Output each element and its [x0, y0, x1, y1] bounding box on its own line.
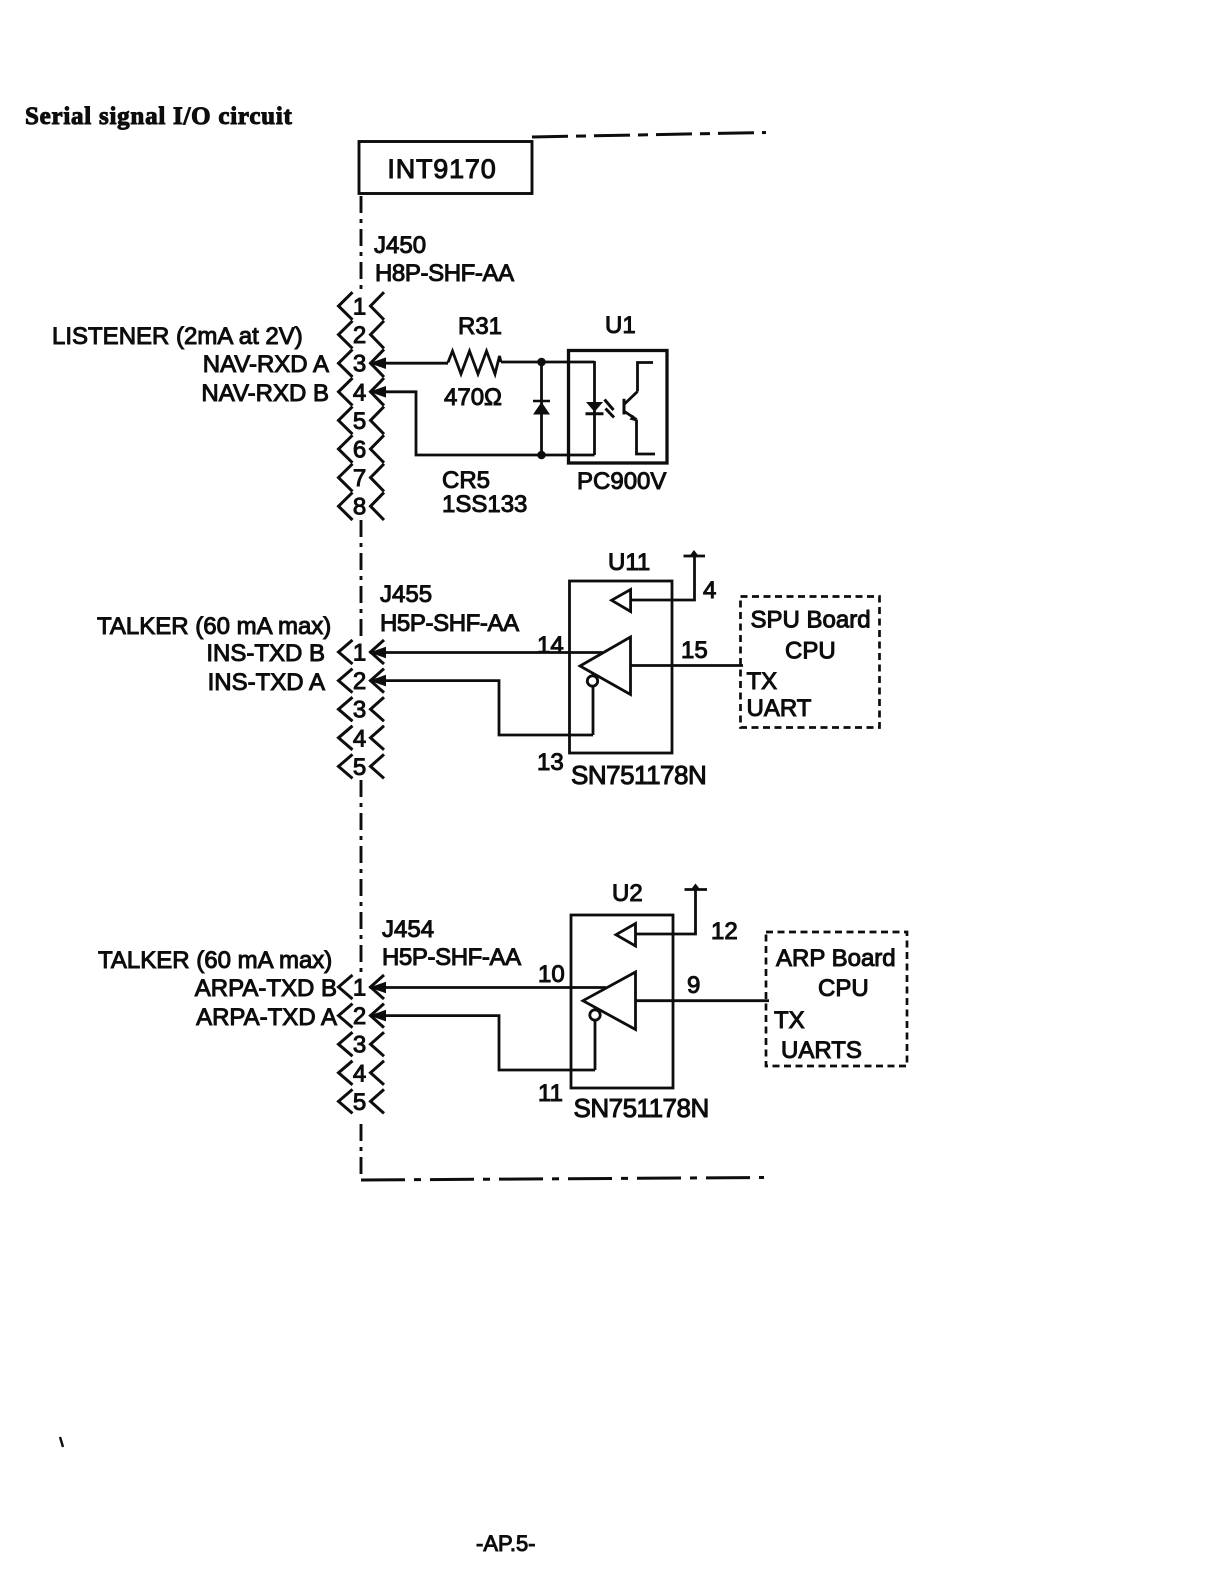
- J450 pin 3: [339, 349, 353, 377]
- svg-text:6: 6: [353, 437, 366, 464]
- J450 pin 2: [339, 321, 353, 349]
- svg-text:2: 2: [353, 1003, 366, 1030]
- power rail tick (U2): [690, 884, 700, 891]
- wire U2 input to ARP board: [636, 999, 770, 1002]
- wire J454 pin1 to U2 driver output: [370, 986, 607, 989]
- svg-text:TALKER (60 mA max): TALKER (60 mA max): [97, 613, 331, 640]
- svg-text:NAV-RXD A: NAV-RXD A: [203, 351, 329, 378]
- svg-text:3: 3: [353, 351, 366, 378]
- svg-text:CPU: CPU: [785, 638, 836, 665]
- arrow into pin 3: [370, 357, 387, 369]
- svg-text:TALKER (60 mA max): TALKER (60 mA max): [98, 947, 332, 974]
- arrow into J455 pin 2: [370, 675, 387, 687]
- svg-text:1: 1: [353, 975, 366, 1002]
- svg-text:5: 5: [353, 408, 366, 435]
- svg-text:U2: U2: [612, 880, 643, 907]
- svg-text:H5P-SHF-AA: H5P-SHF-AA: [380, 610, 519, 637]
- U2 driver triangle: [583, 972, 636, 1030]
- U11 bubble lead wire: [592, 686, 595, 735]
- svg-text:UART: UART: [747, 695, 812, 722]
- U11 enable wire to pin 4 power: [631, 556, 695, 600]
- SPU board dashed box: [741, 597, 880, 728]
- wire pin4 down and across to U1 LED cathode: [370, 392, 595, 455]
- svg-text:UARTS: UARTS: [781, 1037, 862, 1064]
- svg-text:INT9170: INT9170: [387, 154, 496, 184]
- wire pin3 to resistor: [370, 362, 449, 365]
- resistor R31: [448, 351, 501, 374]
- connector J454 pins: [339, 975, 385, 1116]
- svg-text:5: 5: [353, 754, 366, 781]
- wire J455 pin2 jog to U11 inverting output: [370, 681, 594, 735]
- svg-text:13: 13: [537, 749, 564, 776]
- U2 inverting output bubble: [590, 1010, 600, 1020]
- J455 pin 3: [339, 697, 353, 721]
- ARP board dashed box: [766, 932, 907, 1066]
- svg-text:SN751178N: SN751178N: [574, 1093, 709, 1123]
- svg-text:SN751178N: SN751178N: [571, 760, 706, 790]
- node junction top of CR5: [537, 358, 546, 367]
- stray scan mark: [60, 1437, 63, 1447]
- svg-text:CR5: CR5: [442, 467, 490, 494]
- svg-text:ARP Board: ARP Board: [776, 945, 896, 972]
- svg-text:4: 4: [353, 725, 366, 752]
- svg-text:1SS133: 1SS133: [442, 491, 527, 518]
- J455 pin 1: [339, 640, 353, 664]
- svg-text:H5P-SHF-AA: H5P-SHF-AA: [382, 944, 521, 971]
- driver U11 box: [570, 581, 673, 753]
- svg-text:4: 4: [353, 1060, 366, 1087]
- J455 pin 5: [339, 754, 353, 778]
- svg-text:INS-TXD A: INS-TXD A: [208, 669, 325, 696]
- arrow into pin 4: [370, 386, 387, 398]
- svg-text:ARPA-TXD A: ARPA-TXD A: [196, 1004, 337, 1031]
- svg-text:CPU: CPU: [818, 975, 869, 1002]
- svg-text:J450: J450: [374, 232, 426, 259]
- svg-text:8: 8: [353, 494, 366, 521]
- svg-text:15: 15: [681, 637, 708, 664]
- svg-text:NAV-RXD B: NAV-RXD B: [201, 380, 329, 407]
- svg-text:SPU Board: SPU Board: [751, 607, 871, 634]
- J454 pin 4: [339, 1061, 353, 1085]
- svg-text:9: 9: [687, 972, 700, 999]
- svg-text:Serial signal I/O circuit: Serial signal I/O circuit: [25, 103, 293, 130]
- svg-text:14: 14: [537, 632, 564, 659]
- svg-text:3: 3: [353, 1032, 366, 1059]
- svg-text:INS-TXD B: INS-TXD B: [206, 640, 325, 667]
- svg-text:ARPA-TXD B: ARPA-TXD B: [195, 975, 337, 1002]
- svg-text:5: 5: [353, 1089, 366, 1116]
- J450 pin 1: [339, 292, 353, 320]
- svg-text:J454: J454: [382, 916, 434, 943]
- svg-text:PC900V: PC900V: [577, 468, 666, 495]
- U2 bubble lead wire: [594, 1020, 597, 1070]
- J454 pin 2: [339, 1004, 353, 1028]
- svg-text:10: 10: [538, 961, 565, 988]
- U2 enable buffer triangle: [616, 924, 636, 947]
- J450 pin 8: [339, 492, 353, 520]
- wire resistor to U1 LED anode: [501, 361, 595, 364]
- INT9170 block: [359, 142, 532, 194]
- svg-text:H8P-SHF-AA: H8P-SHF-AA: [375, 260, 514, 287]
- dash-dot border left segment A: [360, 196, 363, 292]
- svg-text:TX: TX: [774, 1007, 805, 1034]
- svg-text:11: 11: [538, 1080, 563, 1107]
- power rail bar (U2 pin 12): [685, 888, 708, 891]
- arrow into J454 pin 2: [370, 1010, 387, 1022]
- svg-text:TX: TX: [747, 668, 778, 695]
- svg-text:1: 1: [353, 294, 366, 321]
- J454 pin 1: [339, 975, 353, 999]
- optocoupler U1 box: [569, 351, 668, 464]
- svg-text:4: 4: [703, 577, 716, 604]
- wire J455 pin1 to U11 driver output: [370, 651, 604, 654]
- J450 pin 6: [339, 435, 353, 463]
- dash-dot border top: [532, 133, 766, 138]
- J454 pin 5: [339, 1089, 353, 1113]
- svg-text:4: 4: [353, 379, 366, 406]
- connector J450 pins: [339, 292, 385, 521]
- U11 inverting output bubble: [587, 676, 597, 686]
- svg-text:LISTENER (2mA at 2V): LISTENER (2mA at 2V): [52, 323, 303, 350]
- J455 pin 4: [339, 726, 353, 750]
- svg-text:3: 3: [353, 697, 366, 724]
- U11 driver triangle: [580, 637, 631, 695]
- svg-text:J455: J455: [380, 581, 432, 608]
- J450 pin 4: [339, 378, 353, 406]
- U1 internal phototransistor: [624, 363, 655, 455]
- dash-dot border left segment B: [360, 520, 363, 638]
- svg-text:U11: U11: [608, 549, 650, 576]
- svg-text:-AP.5-: -AP.5-: [476, 1531, 536, 1556]
- dash-dot border left segment C: [360, 780, 363, 973]
- J454 pin 3: [339, 1032, 353, 1056]
- dash-dot border bottom: [361, 1178, 764, 1181]
- U11 enable buffer triangle: [612, 590, 631, 612]
- dash-dot border left segment D: [360, 1124, 363, 1180]
- arrow into J455 pin 1: [370, 647, 387, 659]
- svg-text:1: 1: [353, 640, 366, 667]
- svg-text:2: 2: [353, 322, 366, 349]
- diode CR5: [533, 362, 550, 455]
- driver U2 box: [571, 915, 673, 1088]
- arrow into J454 pin 1: [370, 982, 387, 994]
- U2 enable wire to pin 12 power: [636, 890, 696, 935]
- svg-text:7: 7: [353, 465, 366, 492]
- wire J454 pin2 jog to U2 inverting output: [370, 1016, 596, 1070]
- svg-text:U1: U1: [605, 312, 636, 339]
- node junction bottom of CR5: [537, 451, 546, 460]
- power rail bar (U11 pin 4): [684, 555, 706, 558]
- svg-text:R31: R31: [458, 313, 502, 340]
- J455 pin 2: [339, 669, 353, 693]
- J450 pin 5: [339, 407, 353, 435]
- power rail tick (U11): [689, 550, 699, 557]
- svg-text:2: 2: [353, 668, 366, 695]
- U1 internal LED: [586, 361, 615, 455]
- wire U11 input to SPU board: [631, 664, 744, 667]
- svg-text:12: 12: [711, 918, 738, 945]
- J450 pin 7: [339, 464, 353, 492]
- connector J455 pins: [339, 640, 385, 781]
- svg-text:470Ω: 470Ω: [444, 384, 502, 411]
